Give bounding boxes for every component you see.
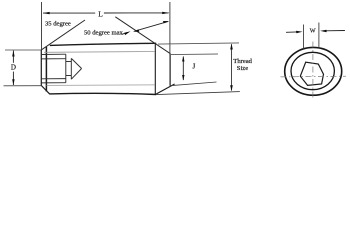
svg-text:Size: Size	[237, 65, 248, 72]
svg-text:W: W	[310, 28, 316, 35]
svg-text:50 degree max: 50 degree max	[84, 29, 124, 36]
svg-text:L: L	[98, 10, 103, 19]
svg-text:D: D	[11, 64, 16, 72]
svg-text:J: J	[193, 63, 196, 71]
svg-text:35 degree: 35 degree	[45, 21, 71, 28]
